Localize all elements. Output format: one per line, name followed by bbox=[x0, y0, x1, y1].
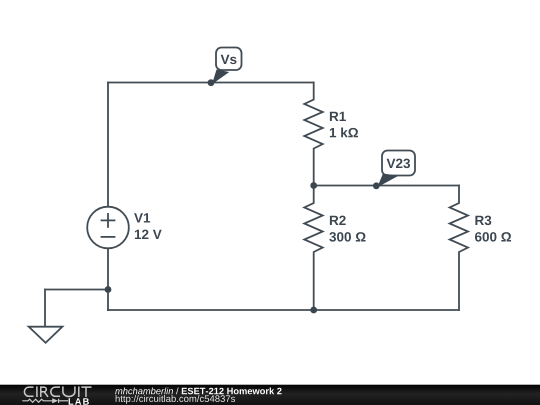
label Vs text bbox=[221, 55, 237, 64]
wire V1 junction to bottom rail bbox=[107, 290, 109, 312]
wire ground branch vertical bbox=[44, 289, 46, 327]
V23 label tail bbox=[377, 174, 398, 188]
node junction R1/R2/V23 wire bbox=[310, 182, 317, 189]
footer title line bbox=[115, 387, 281, 394]
node label V23 box bbox=[382, 151, 415, 176]
node dot Vs bbox=[208, 79, 215, 86]
label V1 bbox=[134, 213, 150, 222]
wire top horizontal (node Vs) bbox=[107, 82, 314, 84]
CircuitLab logo CIRCUIT lettering bbox=[24, 386, 91, 397]
label R2 value 300 Ohm bbox=[329, 232, 365, 242]
node junction R2 bottom bbox=[310, 307, 317, 314]
footer url line bbox=[116, 395, 235, 404]
resistor R2 bbox=[304, 185, 322, 312]
CircuitLab logo diode triangle bbox=[52, 398, 58, 403]
Vs label tail bbox=[212, 70, 229, 85]
footer bar bbox=[0, 385, 540, 405]
resistor R1 bbox=[304, 82, 322, 187]
node dot V23 bbox=[373, 182, 380, 189]
voltage source V1 bbox=[87, 207, 129, 249]
resistor R3 bbox=[450, 185, 468, 312]
label R3 bbox=[475, 216, 491, 226]
node junction V1/ground bbox=[105, 286, 112, 293]
CircuitLab logo resistor-diode symbol bbox=[22, 399, 68, 403]
CircuitLab logo LAB text bbox=[69, 398, 89, 404]
label V1 value 12 V bbox=[135, 230, 162, 239]
wire left vertical bbox=[107, 82, 109, 207]
ground bbox=[29, 327, 63, 343]
wire bottom rail bbox=[107, 309, 459, 311]
node label Vs box bbox=[216, 48, 242, 71]
V1 plus sign bbox=[101, 219, 116, 221]
label R3 value 600 Ohm bbox=[475, 232, 511, 242]
label R1 value 1 kOhm bbox=[330, 128, 358, 138]
wire middle horizontal (node V23) bbox=[314, 185, 459, 187]
label R2 bbox=[330, 216, 346, 225]
label V23 text bbox=[387, 159, 410, 169]
wire ground branch horizontal bbox=[45, 289, 108, 291]
V1 minus sign bbox=[101, 236, 116, 238]
label R1 bbox=[330, 112, 346, 121]
wire V1 bottom lead bbox=[107, 248, 109, 289]
